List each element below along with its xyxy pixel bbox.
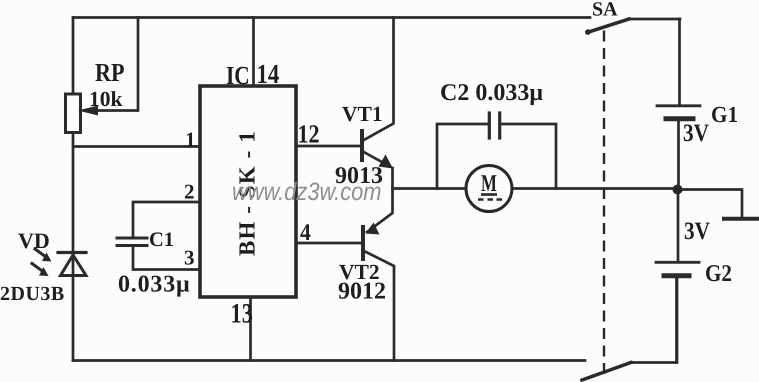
svg-text:1: 1 bbox=[185, 128, 196, 152]
svg-text:C2 0.033μ: C2 0.033μ bbox=[440, 80, 543, 106]
svg-text:VD: VD bbox=[18, 228, 50, 253]
svg-text:IC: IC bbox=[226, 61, 250, 90]
svg-text:9012: 9012 bbox=[338, 279, 386, 305]
svg-text:3V: 3V bbox=[683, 120, 709, 147]
svg-text:SA: SA bbox=[592, 0, 618, 21]
svg-text:4: 4 bbox=[300, 220, 311, 246]
svg-text:13: 13 bbox=[231, 299, 253, 330]
svg-text:14: 14 bbox=[257, 58, 280, 89]
svg-text:VT1: VT1 bbox=[342, 102, 383, 126]
svg-text:G2: G2 bbox=[705, 261, 732, 287]
svg-text:3: 3 bbox=[184, 246, 195, 270]
svg-text:M: M bbox=[481, 171, 497, 197]
svg-text:G1: G1 bbox=[711, 102, 738, 127]
svg-text:2DU3B: 2DU3B bbox=[0, 283, 65, 305]
svg-text:RP: RP bbox=[95, 58, 125, 87]
svg-text:www.dz3w.com: www.dz3w.com bbox=[232, 178, 382, 206]
svg-text:2: 2 bbox=[184, 180, 195, 204]
svg-text:10k: 10k bbox=[89, 87, 123, 111]
svg-text:12: 12 bbox=[298, 120, 320, 149]
svg-text:0.033μ: 0.033μ bbox=[118, 272, 190, 298]
svg-text:3V: 3V bbox=[684, 218, 710, 245]
svg-text:C1: C1 bbox=[149, 229, 174, 251]
